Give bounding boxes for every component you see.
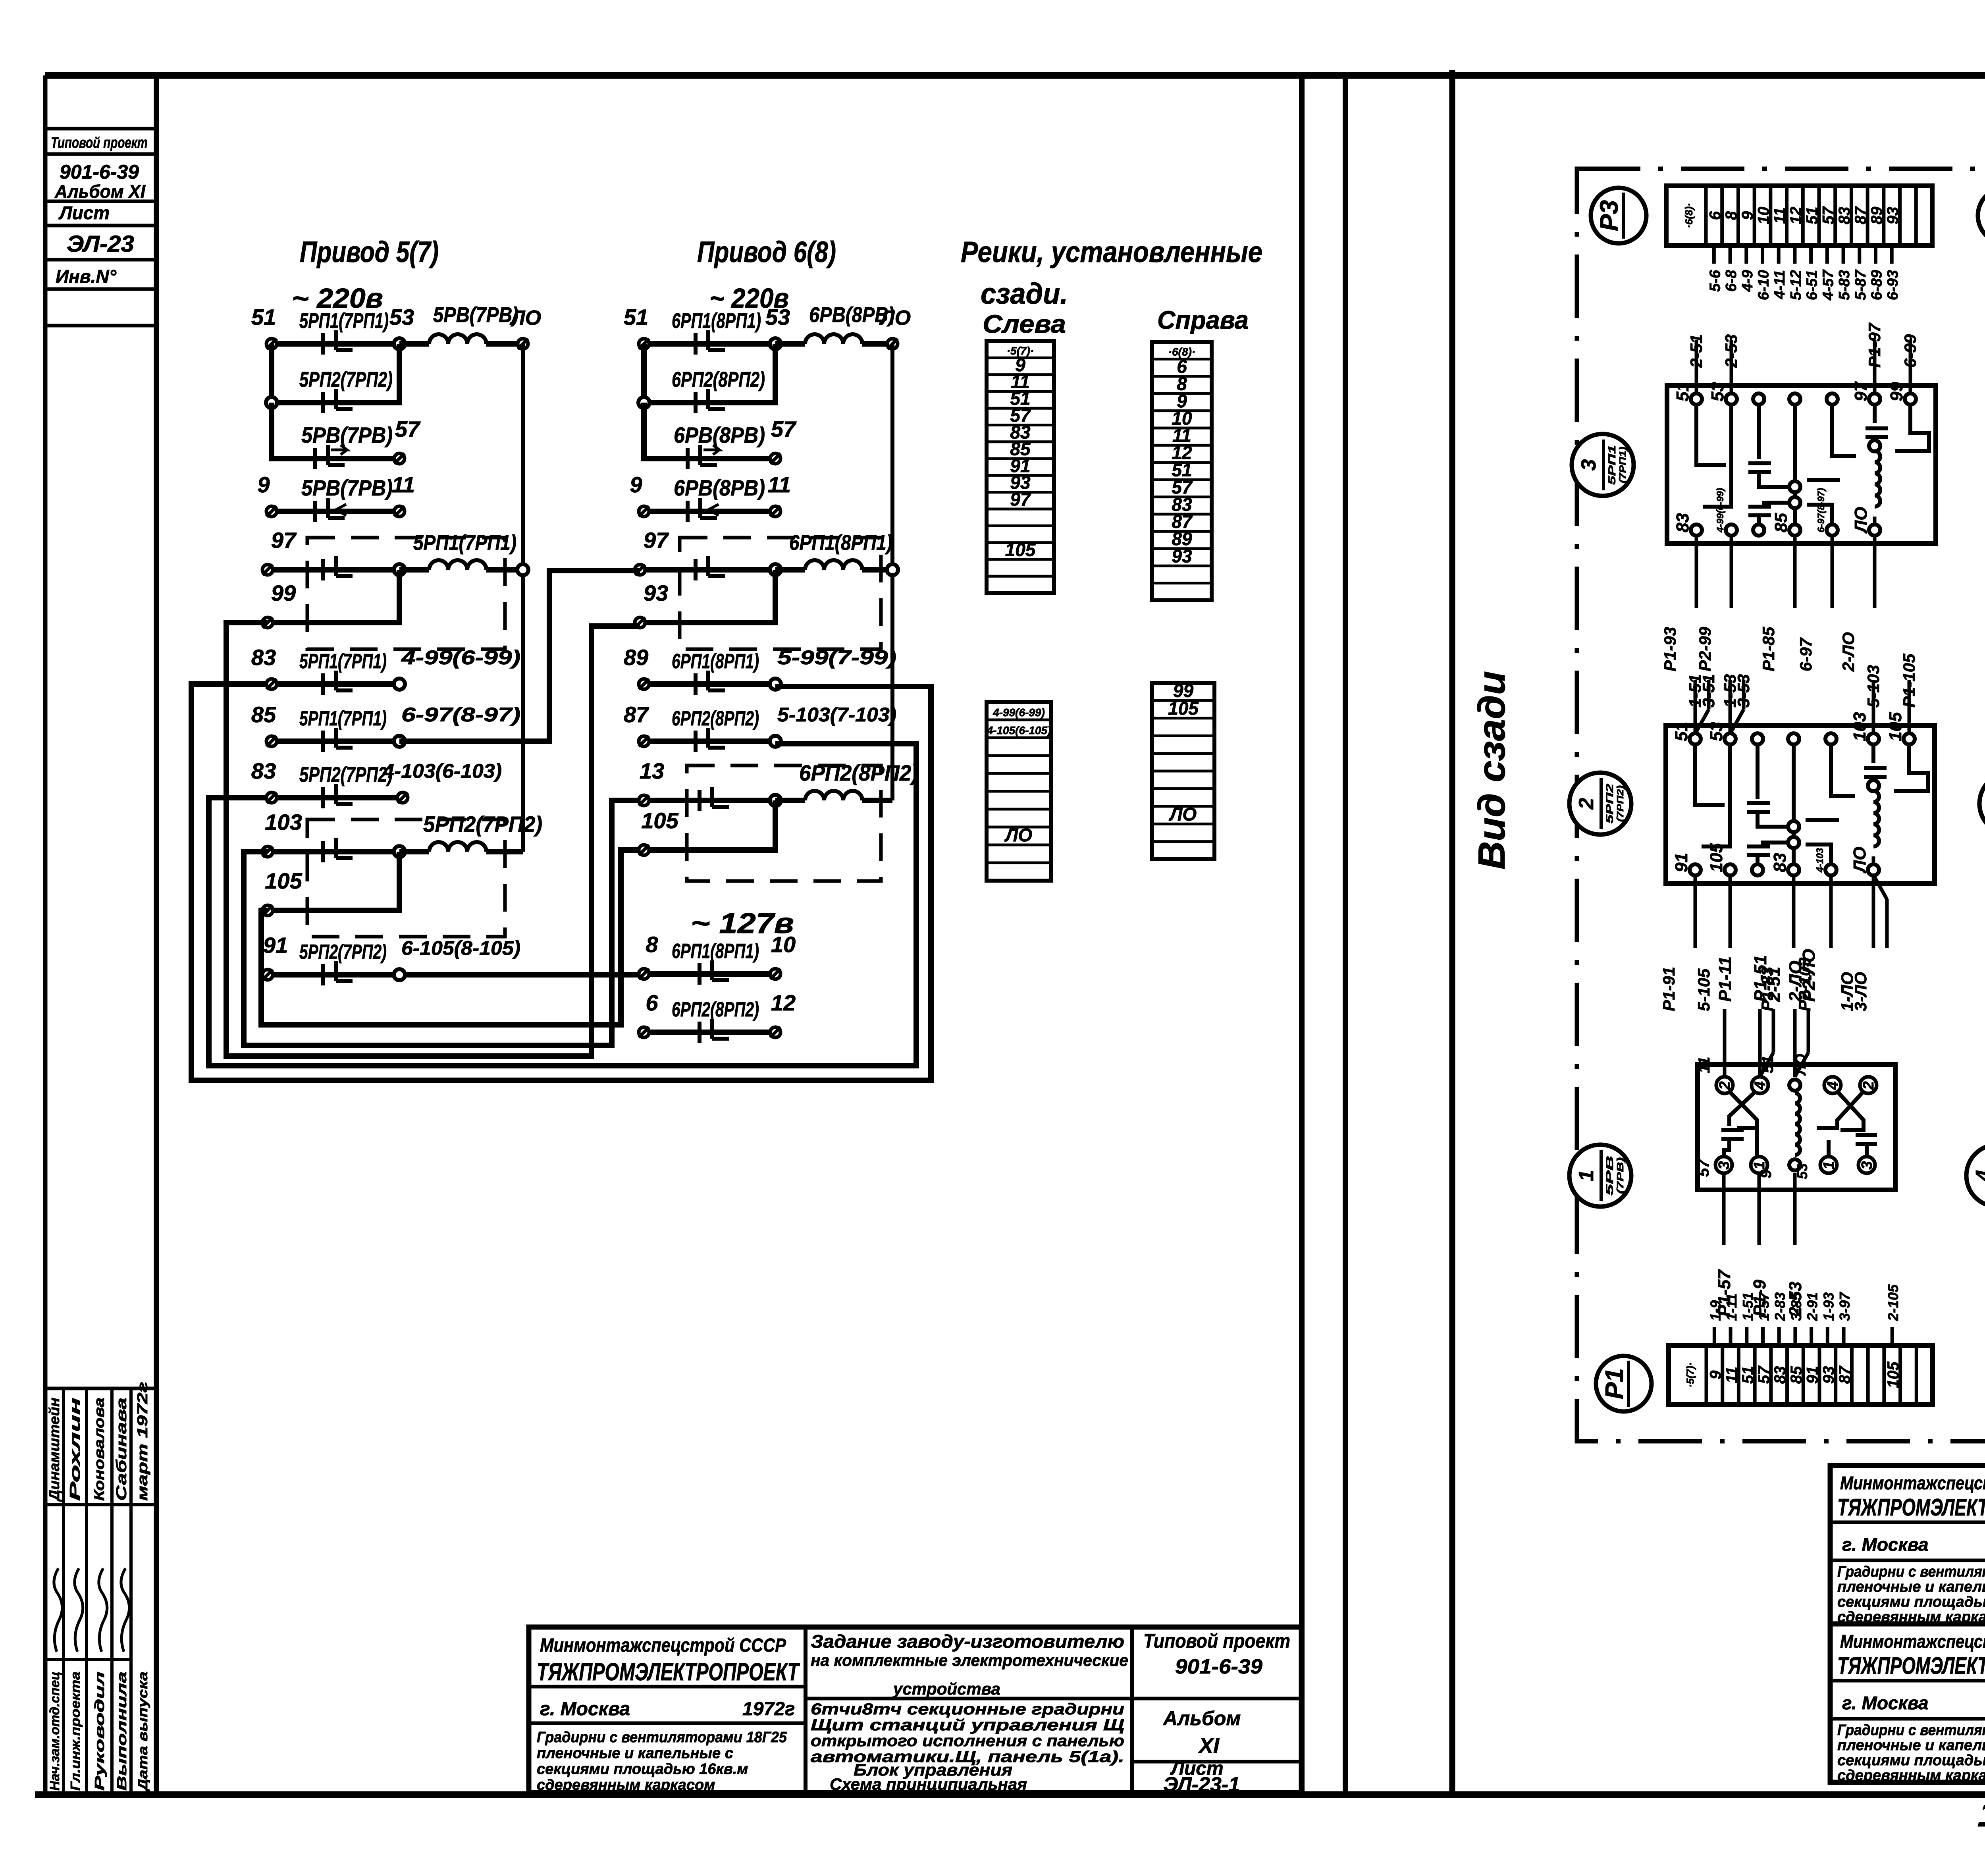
svg-text:6-93: 6-93 [1885,270,1901,300]
block bottom pin ЛО [1869,524,1880,536]
svg-text:5РП1(7РП1): 5РП1(7РП1) [413,531,516,555]
svg-text:Р1-105: Р1-105 [1900,654,1918,708]
svg-text:март 1972г: март 1972г [134,1382,150,1501]
svg-text:3: 3 [1859,1161,1875,1169]
svg-text:2-51: 2-51 [1764,967,1784,1002]
svg-text:51: 51 [251,305,276,330]
svg-text:4: 4 [1825,1081,1841,1090]
svg-text:83: 83 [251,758,276,783]
block bottom pin 2 [1752,864,1763,875]
svg-text:3-51: 3-51 [1699,674,1718,708]
stamp B frame [1830,1465,1985,1624]
wire row9 5 [272,795,398,800]
svg-text:85: 85 [1771,513,1791,532]
designator circle Р4 [1978,188,1985,243]
svg-text:Р2-99: Р2-99 [1696,627,1714,671]
socket bottom pin 3 [1858,1157,1875,1173]
svg-text:97: 97 [1010,489,1031,510]
block top pin 51 [1691,393,1702,405]
svg-text:Градирни с вентиляторами 18Г25: Градирни с вентиляторами 18Г25 [1837,1722,1985,1739]
block internal contacts [1695,744,1928,864]
socket bottom pin mid [1789,1159,1800,1170]
svg-text:2: 2 [1860,1081,1877,1090]
wire row10 103 c1 [268,849,399,854]
svg-text:ЛО: ЛО [1850,847,1869,873]
block bottom pin 91 [1690,864,1701,875]
svg-text:6РП2(8РП2): 6РП2(8РП2) [672,998,759,1021]
designator circle 4 [1966,1145,1985,1207]
svg-text:83: 83 [1836,207,1853,225]
socket top pin 4 [1824,1077,1841,1093]
block coil winding [1868,780,1879,791]
svg-text:4-57: 4-57 [1820,269,1837,301]
svg-text:6РП1(8РП1): 6РП1(8РП1) [672,650,759,673]
strip tick 5-87 [1858,245,1861,264]
block bottom pin ЛО [1868,864,1879,875]
svg-text:6РП2(8РП2): 6РП2(8РП2) [799,760,918,785]
svg-text:91: 91 [263,933,288,958]
dashed box 6РП1(8РП1) [680,538,881,649]
coil 6РВ(8РВ) row1 [775,341,805,347]
svg-text:Альбом XI: Альбом XI [54,181,146,202]
svg-text:103: 103 [265,810,302,835]
stamp B rows left [1830,1521,1985,1524]
svg-text:91: 91 [1804,1366,1821,1384]
terminal ЛО 5 row1 [518,339,528,349]
svg-text:5-87: 5-87 [1852,269,1869,300]
wire row11b 8-10 c2 [644,971,775,977]
svg-text:Типовой проект: Типовой проект [1143,1630,1290,1652]
svg-text:5РП2(7РП2): 5РП2(7РП2) [299,763,393,787]
svg-text:пленочные и капельные с: пленочные и капельные с [537,1745,733,1762]
block top pin 3 [1789,393,1800,405]
svg-text:5РП1: 5РП1 [1607,445,1618,485]
wire 1-51 [1694,680,1697,734]
designator circle 5 [1979,773,1985,835]
svg-text:на комплектные электротехниче: на комплектные электротехнические [811,1651,1128,1670]
wire 2-ЛО [1873,535,1877,608]
svg-text:4-99(6-99): 4-99(6-99) [1715,488,1726,533]
svg-text:Задание заводу-изготовителю: Задание заводу-изготовителю [811,1631,1124,1652]
svg-text:Р4: Р4 [1982,200,1985,231]
wire bus 105-105 [261,850,640,1025]
svg-text:93: 93 [1172,546,1192,567]
wire 3-ЛО [1885,899,1889,948]
svg-text:85: 85 [1788,1366,1805,1384]
socket top pin mid [1789,1080,1800,1091]
svg-text:51: 51 [1739,1366,1757,1384]
wire row10b 105 c2 [644,800,775,850]
table Слева upper [987,341,1054,593]
svg-text:6РП1(8РП1): 6РП1(8РП1) [672,940,759,963]
wire Р2-103 [1829,875,1833,948]
svg-text:93: 93 [1884,207,1902,225]
svg-text:6-89: 6-89 [1869,270,1885,300]
svg-text:53: 53 [389,305,414,330]
wire row6 99 6 [640,570,775,623]
inner dash-dot frame [1577,169,1985,1441]
svg-text:3-97: 3-97 [1837,1292,1853,1321]
block bottom pin 4-99(6-99) [1726,524,1737,536]
terminal strip Р1 [1669,1346,1933,1404]
svg-text:2-51: 2-51 [1687,334,1706,368]
svg-text:6РП1(8РП1): 6РП1(8РП1) [672,309,761,333]
svg-text:Справа: Справа [1157,306,1249,334]
strip tick 2-83 [1777,1327,1781,1346]
svg-text:Градирни с вентиляторами 18Г25: Градирни с вентиляторами 18Г25 [537,1729,787,1746]
svg-text:4: 4 [1752,1081,1769,1090]
signature squiggle [75,1568,83,1652]
svg-text:Р1-97: Р1-97 [1865,322,1884,368]
svg-text:53: 53 [1708,382,1727,401]
svg-text:Выполнила: Выполнила [114,1672,129,1791]
svg-text:3-85: 3-85 [1788,1292,1804,1321]
stamp B rows left [1830,1679,1985,1683]
svg-text:Схема принципиальная: Схема принципиальная [830,1775,1027,1793]
svg-text:93: 93 [644,580,668,605]
signature squiggle [121,1568,129,1652]
svg-text:Минмонтажспецстрой СССР: Минмонтажспецстрой СССР [540,1635,786,1656]
wire 6-97 [1831,535,1834,608]
coil 5РП1(7РП1) in box [399,567,429,573]
svg-text:5-99(7-99): 5-99(7-99) [777,646,896,669]
block mid nodes [1789,481,1800,492]
page divider line 2 [1343,75,1348,1795]
strip tick 5-83 [1842,245,1845,264]
svg-text:97: 97 [644,528,669,553]
svg-text:ТЯЖПРОМЭЛЕКТРОПРОЕКТ: ТЯЖПРОМЭЛЕКТРОПРОЕКТ [537,1658,800,1686]
svg-text:6-97: 6-97 [1796,637,1815,671]
svg-text:ЛО: ЛО [1851,507,1871,534]
svg-text:5РП1(7РП1): 5РП1(7РП1) [299,309,389,333]
node ЛО row5 5 [517,564,528,575]
svg-text:10: 10 [771,932,796,957]
page divider line 1 [1299,75,1305,1795]
svg-text:5РВ(7РВ): 5РВ(7РВ) [433,303,518,327]
svg-text:Типовой проект: Типовой проект [51,135,148,151]
node 53 5 [394,338,405,349]
wire 3-53 [1742,680,1746,710]
strip tick 4-57 [1825,245,1829,264]
node 53 6 [770,338,781,349]
block top pin 51 [1690,733,1701,744]
svg-text:Динамштейн: Динамштейн [46,1398,62,1502]
block coil winding [1869,440,1880,451]
svg-text:83: 83 [251,645,276,670]
wire bus 83-89 [191,684,931,1080]
svg-text:секциями площадью 16кв.м: секциями площадью 16кв.м [1837,1594,1985,1610]
sheet frame left border [154,75,159,1795]
svg-text:4: 4 [1972,1170,1985,1182]
svg-text:Дата выпуска: Дата выпуска [135,1672,150,1792]
svg-text:5РП1(7РП1): 5РП1(7РП1) [299,707,387,730]
wire row3 5РВ(7РВ) [272,403,394,459]
svg-text:2-53: 2-53 [1722,334,1740,368]
strip tick 1-57 [1761,1327,1765,1346]
strip tick 4-11 [1777,245,1781,264]
wire bus 103-13 [244,800,640,1045]
strip tick 6-51 [1809,245,1813,264]
svg-text:4-103(6-103): 4-103(6-103) [382,760,502,782]
svg-text:83: 83 [1673,513,1692,532]
svg-text:2-105: 2-105 [1885,1284,1901,1321]
strip tick 1-11 [1729,1327,1733,1346]
svg-text:секциями площадью 16кв.м: секциями площадью 16кв.м [1837,1752,1985,1769]
svg-text:Инв.N°: Инв.N° [56,266,117,287]
svg-text:г. Москва: г. Москва [540,1699,630,1720]
svg-text:·6(8)·: ·6(8)· [1683,203,1695,228]
svg-text:Минмонтажспецстрой СССР: Минмонтажспецстрой СССР [1840,1631,1985,1652]
svg-text:57: 57 [1695,1159,1712,1177]
socket top pin 4 [1752,1077,1768,1093]
right page left border [1449,70,1455,1795]
svg-text:Р1-91: Р1-91 [1659,967,1678,1011]
wire 1-53 [1729,680,1732,734]
coil 6РП2(8РП2) c2 [775,798,805,803]
wire row7 5 [272,681,399,687]
svg-text:3: 3 [1577,459,1600,470]
svg-text:5-83: 5-83 [1836,270,1853,300]
svg-text:5РП2(7РП2): 5РП2(7РП2) [299,368,393,391]
svg-text:4-105(6-105): 4-105(6-105) [987,724,1051,737]
svg-text:Р1-93: Р1-93 [1661,627,1679,671]
svg-text:57: 57 [395,416,421,442]
svg-text:11: 11 [1723,1367,1740,1383]
svg-text:Сабинава: Сабинава [113,1398,129,1501]
svg-text:89: 89 [624,645,648,670]
svg-text:6-105(8-105): 6-105(8-105) [401,937,520,959]
wire row3 6РВ(8РВ) [644,403,770,459]
svg-text:(7РП1): (7РП1) [1617,447,1628,483]
title strip left edge [43,75,48,1795]
svg-text:87: 87 [1836,1365,1854,1384]
wire Р1-91 [1694,875,1697,948]
svg-text:Р3: Р3 [1595,200,1623,231]
svg-text:Привод 5(7): Привод 5(7) [300,235,439,268]
wire row2 6РП2(8РП2) [644,344,775,403]
svg-text:1-51: 1-51 [1740,1292,1756,1321]
wire 6-99 [1909,340,1912,394]
svg-text:901-6-39: 901-6-39 [1175,1655,1262,1678]
wire Р1-105 [1908,680,1911,734]
svg-text:87: 87 [624,702,649,727]
svg-text:53: 53 [1707,722,1726,741]
block mid nodes [1788,821,1799,832]
wire 3-51 [1707,680,1711,710]
wire Р1-9 [1758,1173,1761,1245]
block top pin 3 [1788,733,1799,744]
svg-text:пленочные и капельные с: пленочные и капельные с [1837,1737,1985,1754]
strip tick 2-91 [1810,1327,1813,1346]
svg-text:ТЯЖПРОМЭЛЕКТРОПРОЕКТ: ТЯЖПРОМЭЛЕКТРОПРОЕКТ [1837,1652,1985,1679]
svg-text:(7РВ): (7РВ) [1615,1157,1625,1194]
svg-text:Реики, установленные: Реики, установленные [961,235,1262,268]
svg-text:85: 85 [251,702,276,727]
svg-text:6РВ(8РВ): 6РВ(8РВ) [674,475,765,500]
svg-text:901-6-39: 901-6-39 [60,161,139,183]
node ЛО row5 6 [887,564,898,575]
ЛО rail 6 [890,344,894,800]
svg-text:XI: XI [1198,1734,1220,1758]
stamp A rows right [1132,1697,1301,1701]
node row5 6 [770,564,781,575]
svg-text:51: 51 [624,305,648,330]
stamp B frame [1830,1624,1985,1782]
dashed box 6РП2(8РП2) circuit2 [687,765,881,881]
svg-text:Слева: Слева [983,310,1066,338]
sheet frame top border [45,72,1985,79]
strip tick 2-105 [1891,1327,1894,1346]
svg-text:51: 51 [1673,382,1692,401]
block top pin 105 [1904,733,1915,744]
svg-text:5-103: 5-103 [1864,665,1883,708]
svg-text:1: 1 [1751,1161,1768,1169]
terminal ЛО 6 row1 [887,339,898,349]
block bottom pin 105 [1725,864,1736,875]
strip tick 6-8 [1729,245,1732,264]
block top pin 99 [1905,393,1916,405]
relay socket body [1698,1064,1895,1190]
strip tick 3-85 [1793,1327,1797,1346]
svg-text:13: 13 [640,758,664,783]
wire 1-ЛО [1872,875,1875,948]
wire row7 6 [644,681,775,687]
block top pin 103 [1868,733,1879,744]
svg-text:3: 3 [1716,1161,1733,1169]
svg-text:6РП2(8РП2): 6РП2(8РП2) [672,368,765,391]
svg-text:ЭЛ-23-1: ЭЛ-23-1 [1163,1773,1240,1796]
svg-text:97: 97 [1851,381,1871,401]
svg-text:4-99(6-99): 4-99(6-99) [992,706,1045,719]
svg-text:Р1-85: Р1-85 [1759,627,1778,671]
wire Р1-57 [1722,1173,1726,1245]
node row10 c1 [394,846,405,857]
svg-text:12: 12 [1787,207,1805,225]
strip tick 1-51 [1745,1327,1748,1346]
block top pin 4 [1827,393,1838,405]
wire Р1-83 [1792,875,1796,948]
wire Р1-93 [1695,535,1698,608]
wire row9b 13 c2 [644,798,775,803]
dashed box 5РП1(7РП1) [307,538,505,649]
svg-text:Привод 6(8): Привод 6(8) [697,235,836,268]
svg-text:9: 9 [630,472,642,497]
svg-text:Вид сзади: Вид сзади [1470,671,1513,870]
strip tick 5-6 [1712,245,1716,264]
stamp A rows left [529,1685,806,1689]
svg-text:11: 11 [1771,207,1788,224]
socket bottom pin 3 [1715,1157,1732,1173]
svg-text:ЛО: ЛО [879,307,911,330]
svg-text:6: 6 [646,990,658,1015]
svg-text:53: 53 [765,305,790,330]
svg-text:51: 51 [1672,722,1691,741]
svg-text:4-99(6-99): 4-99(6-99) [401,646,520,669]
svg-text:Гл.инж.проекта: Гл.инж.проекта [68,1672,83,1791]
strip tick 6-89 [1874,245,1877,264]
svg-text:99: 99 [271,580,296,605]
svg-text:1: 1 [1575,1170,1598,1182]
svg-text:9: 9 [257,472,270,497]
svg-text:9: 9 [1739,211,1756,220]
svg-text:Рохлин: Рохлин [67,1397,83,1501]
svg-text:сдеревянным каркасом: сдеревянным каркасом [1837,1767,1985,1784]
svg-text:1-93: 1-93 [1820,1292,1837,1321]
svg-text:5-6: 5-6 [1707,270,1723,292]
svg-text:6-99: 6-99 [1901,334,1919,368]
wire row5 97 5 [268,567,399,573]
wire 5-103 [1872,680,1875,734]
coil 5РП2(7РП2) c1 [399,849,429,854]
ЛО rail 5 [521,344,525,852]
relay block body [1667,386,1936,544]
strip tick 1-9 [1713,1327,1716,1346]
svg-text:12173-11: 12173-11 [1977,1794,1985,1834]
svg-text:Лист: Лист [58,202,110,223]
svg-text:Р1: Р1 [1600,1368,1628,1399]
svg-text:Р2-ЛО: Р2-ЛО [1799,949,1819,1002]
svg-text:Щит станций управления Щ: Щит станций управления Щ [811,1716,1124,1734]
designator circle Р1 [1596,1356,1652,1411]
relay block body [1666,725,1935,883]
svg-text:105: 105 [1707,843,1726,872]
block internal contacts [1696,405,1929,524]
block bottom pin 6-97(8-97) [1827,524,1838,536]
svg-text:3-ЛО: 3-ЛО [1851,972,1870,1011]
dashed box 5РП2(7РП2) circuit1 [307,819,505,937]
svg-text:4-103: 4-103 [1815,848,1825,873]
svg-text:6РП2(8РП2): 6РП2(8РП2) [672,707,759,730]
svg-text:51: 51 [1804,207,1821,225]
wire bus 99-93 [226,623,640,1056]
block bottom pin 4-103 [1825,864,1837,875]
svg-text:105: 105 [641,808,678,833]
wire row12 91 c1 [268,972,644,978]
svg-text:Руководил: Руководил [92,1672,107,1791]
wire Р1-97 [1873,340,1877,394]
svg-text:1: 1 [1821,1161,1837,1169]
svg-text:6-8: 6-8 [1723,270,1740,292]
svg-text:87: 87 [1852,206,1869,224]
wire row12b 6-12 c2 [644,1030,775,1035]
wire Р2-99 [1730,535,1733,608]
wire 2-51 [1772,1009,1775,1053]
block top pin 4 [1825,733,1837,744]
svg-text:10: 10 [1755,207,1773,225]
svg-text:6-51: 6-51 [1804,270,1821,300]
wire row1 5 [272,341,399,347]
svg-text:Минмонтажспецстрой СССР: Минмонтажспецстрой СССР [1840,1473,1985,1493]
wire Р1-51 [1758,1009,1762,1077]
strip tick 4-9 [1744,245,1748,264]
signature block grid [45,1387,154,1390]
wire 5-105 [1729,875,1732,948]
svg-text:открытого исполнения с панель: открытого исполнения с панелью [811,1732,1124,1750]
svg-text:57: 57 [1756,1365,1773,1384]
wire Р2-ЛО [1807,1009,1810,1053]
svg-text:105: 105 [1886,712,1905,741]
wire row4 6РВ(8РВ) 9-11 [644,509,770,514]
svg-text:91: 91 [1672,853,1691,872]
svg-text:57: 57 [1819,206,1837,224]
node row5 5 [394,564,405,575]
block top pin 2 [1752,733,1763,744]
svg-text:11: 11 [1696,1057,1713,1073]
svg-text:сзади.: сзади. [981,277,1068,310]
svg-text:97: 97 [271,528,297,553]
block bottom pin 85 [1789,524,1800,536]
block bottom pin 2 [1753,524,1764,536]
